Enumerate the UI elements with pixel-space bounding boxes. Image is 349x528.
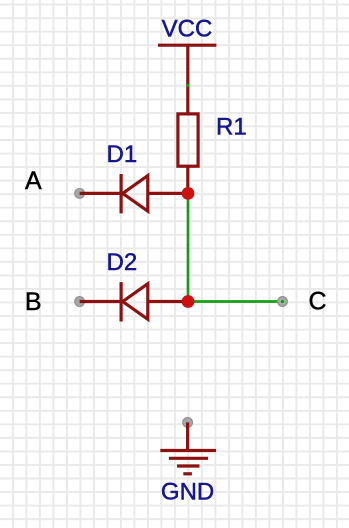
svg-text:A: A xyxy=(25,167,42,195)
svg-text:GND: GND xyxy=(161,479,214,506)
svg-text:B: B xyxy=(25,288,42,316)
svg-text:VCC: VCC xyxy=(162,16,213,43)
svg-text:D2: D2 xyxy=(107,249,138,276)
svg-text:D1: D1 xyxy=(107,141,138,168)
svg-text:C: C xyxy=(309,288,327,316)
svg-text:R1: R1 xyxy=(216,114,247,141)
